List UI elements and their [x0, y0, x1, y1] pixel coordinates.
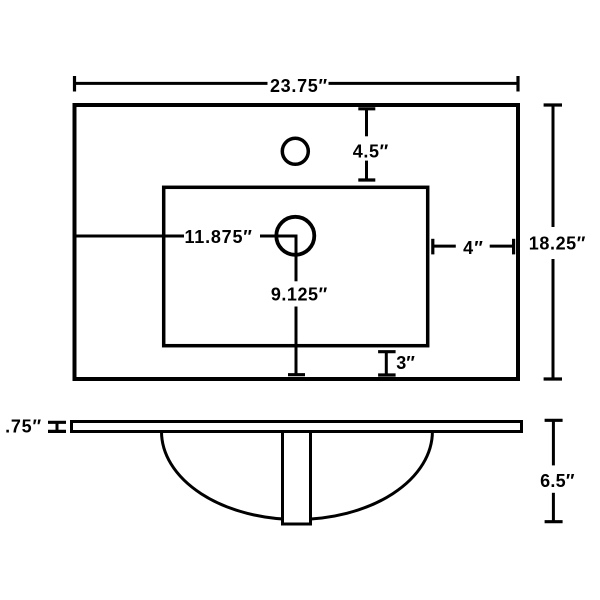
faucet hole circle — [282, 138, 308, 164]
dimension 4" right tick — [512, 239, 515, 255]
dimension 6.5" top tick — [545, 419, 563, 422]
drain hole circle — [276, 217, 314, 255]
svg-text:6.5″: 6.5″ — [540, 471, 575, 491]
svg-text:18.25″: 18.25″ — [529, 234, 586, 254]
dimension 4" left tick — [431, 239, 434, 255]
dimension 4" line right segment — [490, 245, 514, 248]
dimension 6.5" line lower segment — [552, 493, 555, 522]
svg-text:4″: 4″ — [463, 238, 484, 258]
dimension 4.5" line lower segment — [365, 161, 368, 180]
dimension 3" bottom tick — [378, 373, 396, 376]
dimension 23.75" line left segment — [75, 82, 268, 85]
dimension 18.25" line lower segment — [552, 259, 555, 379]
svg-text:11.875″: 11.875″ — [184, 227, 252, 247]
basin bowl arc (side view) — [162, 432, 433, 520]
dimension 3" vertical line — [385, 352, 388, 375]
inner rectangle (basin outline, top view) — [164, 187, 428, 345]
dimension 6.5" bottom tick — [545, 520, 563, 523]
dimension 4.5" top tick — [358, 107, 375, 110]
dimension 11.875" left tick — [73, 228, 76, 244]
dimension 18.25" bottom tick — [544, 377, 562, 380]
dimension 23.75" left tick — [73, 76, 76, 92]
dimension 4.5" line upper segment — [365, 109, 368, 137]
dimension 9.125" bottom tick — [288, 373, 305, 376]
dimension 23.75" line right segment — [329, 82, 519, 85]
dimension 4.5" bottom tick — [358, 178, 375, 181]
drain pipe white mask — [281, 433, 312, 523]
dimension 18.25" top tick — [544, 103, 562, 106]
drain pipe bottom edge — [281, 523, 312, 526]
countertop slab (side view) — [72, 422, 522, 432]
dimension 6.5" line upper segment — [552, 420, 555, 465]
dimension .75" top tick — [48, 421, 66, 424]
svg-text:9.125″: 9.125″ — [271, 284, 328, 304]
dimension .75" I-beam vertical — [56, 422, 59, 431]
dimension .75" bottom tick — [48, 430, 66, 433]
svg-text:3″: 3″ — [396, 353, 415, 373]
svg-text:4.5″: 4.5″ — [353, 141, 389, 161]
dimension 18.25" line upper segment — [552, 105, 555, 227]
dimension 23.75" right tick — [516, 76, 519, 92]
dimension 9.125" line upper segment — [295, 236, 298, 281]
dimension 3" top tick — [378, 350, 396, 353]
svg-text:23.75″: 23.75″ — [270, 76, 328, 96]
dimension 11.875" line left segment — [75, 235, 185, 238]
svg-text:.75″: .75″ — [5, 417, 42, 437]
dimension 11.875" line right segment — [260, 235, 298, 238]
drain pipe right edge — [309, 430, 312, 526]
outer rectangle (vanity top, top view) — [75, 105, 519, 379]
drain pipe left edge — [281, 430, 284, 526]
dimension 4" line left segment — [433, 245, 456, 248]
dimension 9.125" line lower segment — [295, 307, 298, 375]
